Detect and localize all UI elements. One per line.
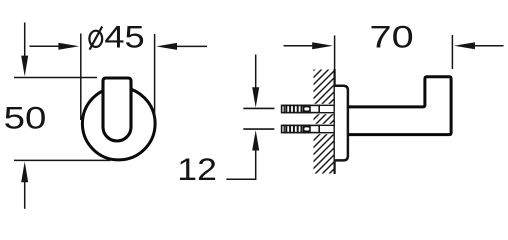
svg-text:12: 12 [177, 153, 217, 188]
wall section hatching [203, 69, 434, 174]
dimension 12: upper extension line [243, 107, 274, 109]
dimension 70: right tail with left arrow [454, 42, 503, 49]
dimension 12: upper dimension line with down arrow [252, 55, 259, 108]
dimension ø45: value label [89, 20, 144, 55]
front view circle (hook base ø45) [82, 87, 155, 160]
dimension 12: value label [177, 153, 217, 188]
dimension 50: top extension line [14, 77, 97, 79]
dimension 50: lower dimension line with up arrow [21, 162, 28, 209]
dimension 70: left tail with right arrow [284, 42, 334, 49]
dimension 50: value label [4, 101, 47, 136]
dimension 12: lower dimension line with up arrow and leader elbow [226, 130, 259, 179]
dimension 50: bottom extension line [14, 159, 111, 161]
svg-text:50: 50 [4, 101, 47, 136]
svg-text:45: 45 [104, 20, 144, 55]
dimension ø45: left arrow [30, 43, 80, 50]
dimension 70: value label [370, 19, 414, 54]
svg-text:70: 70 [370, 19, 414, 54]
dimension ø45: right arrow [156, 43, 207, 50]
wall screw clearance (white gaps) [313, 104, 335, 134]
mounting flange side view [335, 86, 348, 161]
dimension 70: right extension line [451, 35, 453, 69]
dimension ø45: left extension line [80, 34, 82, 121]
dimension ø45: right extension line [154, 34, 156, 120]
dimension 50: upper dimension line with down arrow [21, 23, 28, 77]
hook stem front view (U tab) [103, 78, 131, 141]
wall face line / left extension of 70 [334, 36, 336, 175]
screw anchor top [282, 105, 335, 114]
screw anchor bottom [282, 125, 335, 134]
dimension 12: lower extension line [243, 128, 274, 130]
hook arm and tip side view [348, 77, 451, 135]
